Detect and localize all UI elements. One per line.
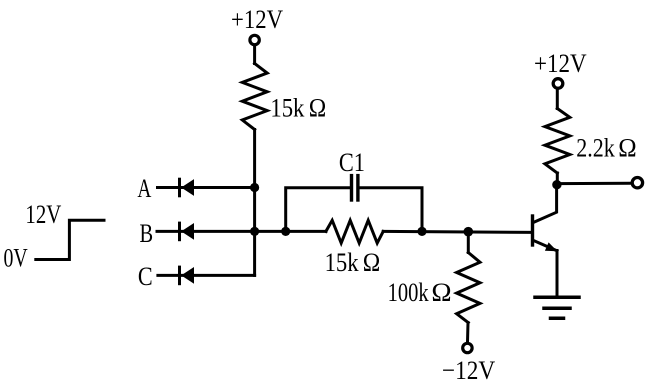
svg-text:B: B: [140, 218, 154, 248]
label 100kΩ (R3): [388, 277, 452, 307]
diode D1 (input A): [180, 179, 195, 196]
transistor Q1 collector lead: [534, 185, 557, 222]
label 15kΩ (R1): [270, 93, 326, 123]
wire: R2 to Q1 base: [383, 231, 531, 232]
wire: input B to bus: [157, 230, 255, 233]
wire: input C to bus: [158, 274, 255, 277]
wire: R3 to -12V terminal: [466, 323, 470, 343]
wire: collector node to output terminal: [557, 182, 631, 185]
wire: left branch up to C1: [286, 188, 350, 232]
wire: B node to R2: [255, 230, 326, 233]
svg-text:2.2k: 2.2k: [576, 133, 615, 163]
svg-text:Ω: Ω: [618, 133, 636, 163]
wire: base node to R3: [467, 232, 470, 253]
svg-text:100k: 100k: [388, 277, 430, 307]
wire: C1 to right branch: [360, 188, 422, 232]
svg-text:0V: 0V: [4, 243, 28, 273]
node: A-row junction: [250, 183, 259, 192]
label 2.2kΩ (R4): [576, 133, 636, 163]
terminal output: [632, 178, 642, 188]
ground: [535, 297, 579, 318]
diode D2 (input B): [180, 223, 195, 240]
svg-text:−12V: −12V: [442, 355, 495, 385]
svg-text:+12V: +12V: [534, 48, 587, 78]
svg-text:Ω: Ω: [363, 247, 381, 277]
node: base junction: [464, 227, 474, 237]
transistor Q1 base bar: [531, 216, 534, 245]
svg-text:Ω: Ω: [431, 277, 451, 307]
node: RC left junction: [281, 227, 290, 236]
node: collector junction: [552, 180, 561, 189]
label 15kΩ (R2): [325, 247, 381, 277]
transistor Q1 emitter lead with arrow: [534, 241, 558, 252]
resistor R3 100k: [457, 253, 480, 323]
diode D3 (input C): [180, 267, 195, 284]
svg-text:15k: 15k: [270, 93, 305, 123]
wire: emitter to ground: [556, 251, 559, 298]
capacitor C1: [352, 176, 358, 200]
wire: +12V terminal to R4: [556, 90, 559, 109]
node: RC right junction: [417, 227, 426, 236]
waveform: input step: [36, 220, 104, 259]
resistor R1 15k (pull-up): [242, 64, 267, 130]
svg-text:+12V: +12V: [231, 4, 283, 34]
terminal -12V: [463, 343, 472, 352]
svg-text:Ω: Ω: [309, 93, 327, 123]
wire: bus from R1 down to C row: [253, 130, 256, 276]
terminal +12V (left supply): [250, 35, 259, 44]
resistor R4 2.2k: [545, 109, 570, 174]
wire: R4 to collector node: [556, 173, 559, 185]
wire: input A to bus: [158, 186, 255, 189]
svg-text:15k: 15k: [325, 247, 360, 277]
svg-text:C: C: [138, 261, 153, 291]
terminal +12V (right supply): [553, 79, 563, 89]
node: B-row junction: [250, 227, 259, 236]
svg-text:C1: C1: [339, 147, 365, 177]
svg-text:12V: 12V: [25, 199, 61, 229]
resistor R2 15k (parallel with C1): [326, 220, 383, 243]
svg-text:A: A: [137, 173, 151, 203]
wire: +12V terminal to R1: [253, 47, 256, 64]
